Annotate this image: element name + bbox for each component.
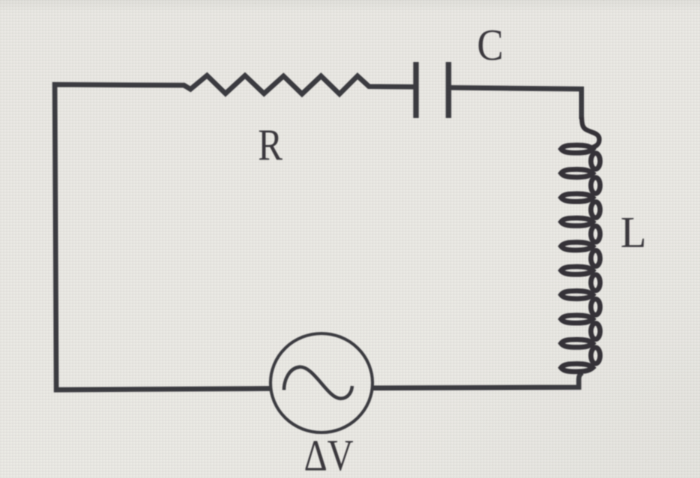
svg-text:C: C <box>477 20 504 70</box>
svg-text:ΔV: ΔV <box>304 430 354 478</box>
svg-text:L: L <box>621 207 647 257</box>
svg-text:R: R <box>258 120 283 170</box>
